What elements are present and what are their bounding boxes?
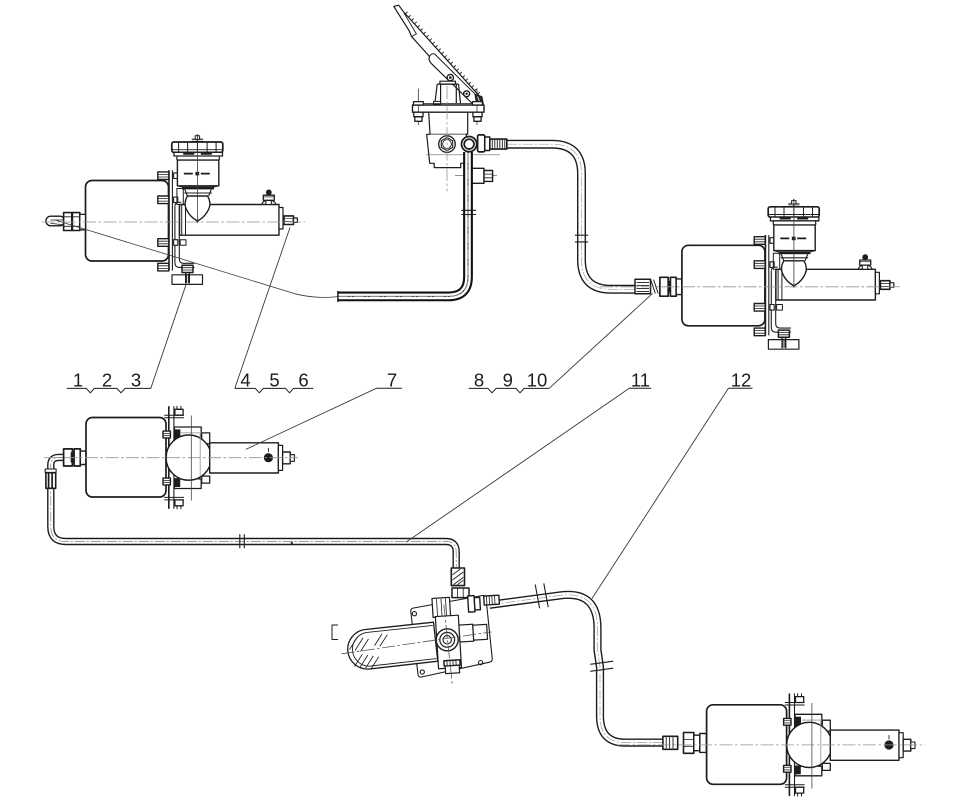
svg-text:11: 11: [631, 370, 650, 391]
pipe from pedal valve to right booster (items 8 9 10): [507, 144, 636, 289]
hose collar: [45, 469, 56, 473]
svg-text:5: 5: [269, 370, 279, 391]
svg-text:3: 3: [131, 370, 141, 391]
hand valve body: [432, 594, 504, 674]
clevis rod of booster 1: [46, 213, 86, 231]
svg-text:8: 8: [474, 370, 484, 391]
pipe from hand valve to rear booster (item 12): [490, 583, 707, 753]
hose crimp into hand valve: [451, 568, 464, 586]
centerline booster 4 axis: [617, 744, 925, 746]
underline 7: [377, 387, 402, 389]
valve body outline: [427, 112, 468, 167]
hose fitting at right booster inlet: [635, 277, 682, 296]
hose crimp section: [46, 473, 56, 489]
underline 4 5 6: [235, 388, 314, 392]
hose crimp at rear booster: [663, 736, 678, 749]
svg-text:9: 9: [503, 370, 513, 391]
centerline booster 1 axis: [42, 221, 305, 223]
leader line item 12: [592, 388, 728, 598]
coupling on vertical run: [590, 661, 613, 671]
tread marks: [406, 12, 480, 94]
underline 8 9 10: [469, 388, 550, 392]
flange bolt right: [476, 89, 478, 126]
hand brake lever: [348, 622, 438, 669]
svg-text:2: 2: [102, 370, 112, 391]
centerline hand valve vertical: [444, 605, 453, 685]
svg-text:4: 4: [240, 370, 250, 391]
brake booster 2 (rear, top-right): [682, 199, 894, 349]
brake booster 1 (front, top-left): [86, 135, 298, 285]
label underlines: [67, 388, 753, 393]
pivot bolt upper: [447, 74, 453, 80]
pivot bolt lower: [464, 91, 470, 97]
svg-text:12: 12: [731, 370, 752, 391]
leader line item 7: [246, 388, 377, 449]
pivot tower: [440, 81, 456, 84]
pedal valve body outline: [426, 112, 500, 175]
pipe from pedal valve down-left (items 4 5 6 supply): [338, 152, 476, 302]
pipe union coupling: [575, 235, 588, 242]
centerline reservoir 2: [793, 199, 795, 288]
centerline booster 3 vertical: [190, 416, 192, 501]
underline 1 2 3: [67, 388, 151, 392]
left port boss: [439, 136, 456, 153]
grip hatching: [350, 634, 388, 669]
brake booster 3 (mid-left, sphere type): [86, 406, 294, 509]
leader line items 4 5 6: [235, 228, 290, 389]
leader line items 1 2 3: [151, 285, 186, 389]
hose crimp (striped): [490, 139, 507, 149]
coupling on upper run: [535, 583, 548, 608]
flange pads: [434, 101, 441, 104]
centerline hand valve horizontal: [342, 632, 492, 654]
foot pedal: [394, 5, 484, 105]
centerline booster 2 axis: [600, 286, 901, 288]
outlet elbow block: [478, 135, 485, 152]
right port boss: [462, 137, 477, 152]
right hose crimp: [484, 595, 500, 605]
heel roller: [475, 94, 483, 105]
leader line item 11: [406, 388, 629, 542]
thin link line from clevis to pipe end: [55, 220, 338, 297]
svg-text:7: 7: [387, 370, 397, 391]
svg-text:6: 6: [298, 370, 308, 391]
underline 12: [728, 387, 752, 389]
pedal valve lower fitting: [470, 168, 493, 183]
pipe union coupling: [240, 534, 245, 548]
booster 3 inlet elbow nuts: [64, 449, 86, 466]
pedal slot: [404, 13, 417, 37]
svg-text:10: 10: [527, 370, 548, 391]
leader line items 8 9 10: [549, 293, 652, 388]
centerline booster 4 vertical: [811, 703, 813, 789]
hand brake valve mounting plate: [332, 595, 492, 677]
pedal face inner edge: [430, 54, 481, 100]
mounting flange: [415, 103, 481, 105]
bottom fitting: [444, 660, 460, 666]
long pipe from booster 3 to hand valve (item 11): [45, 457, 469, 597]
pipe end cap: [337, 291, 339, 302]
right hose nuts: [468, 596, 475, 613]
centerline pedal valve: [446, 86, 448, 192]
hand valve boss circles: [436, 629, 458, 651]
junction dot: [291, 542, 293, 544]
brake booster 4 (bottom-right, sphere type): [707, 693, 915, 796]
underline 11: [629, 387, 651, 389]
pipe union coupling: [461, 210, 476, 214]
projection lines: [426, 155, 500, 176]
pedal valve body: [413, 81, 507, 152]
item number labels: [73, 370, 751, 391]
centerline reservoir 1: [197, 134, 199, 223]
flange bolt left: [417, 89, 419, 126]
svg-text:1: 1: [73, 370, 83, 391]
centerline booster 3 axis: [44, 457, 298, 459]
